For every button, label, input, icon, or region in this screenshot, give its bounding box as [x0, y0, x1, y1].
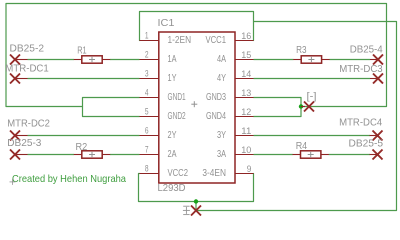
resistor R4: [293, 151, 329, 158]
svg-text:R3: R3: [296, 45, 307, 56]
wire MTR-DC2 to pin 6: [28, 135, 140, 137]
pin 15 stub: [235, 59, 254, 61]
svg-text:16: 16: [241, 31, 251, 41]
svg-text:R1: R1: [77, 46, 87, 57]
connector MTR-DC2: [10, 131, 28, 141]
svg-text:GND2: GND2: [168, 111, 186, 122]
svg-text:DB25-2: DB25-2: [10, 43, 45, 54]
svg-text:8: 8: [145, 163, 149, 173]
resistor R3: [293, 56, 329, 63]
pin 10 stub: [235, 154, 254, 156]
svg-text:GND1: GND1: [168, 92, 186, 103]
svg-text:MTR-DC4: MTR-DC4: [339, 118, 382, 129]
pin 9 stub: [235, 173, 254, 175]
svg-text:VCC2: VCC2: [168, 168, 189, 179]
svg-text:DB25-4: DB25-4: [350, 45, 383, 56]
svg-text:R4: R4: [296, 141, 308, 152]
svg-text:MTR-DC2: MTR-DC2: [7, 118, 50, 129]
wire VCC2 pin 8 / 3-4EN pin 9 bottom run: [139, 174, 254, 202]
wire MTR-DC1 to pin 3: [28, 78, 140, 80]
svg-text:VCC1: VCC1: [206, 35, 227, 46]
svg-text:4Y: 4Y: [217, 73, 226, 84]
svg-text:MTR-DC1: MTR-DC1: [5, 63, 49, 74]
wire pin 14 to MTR-DC3: [254, 78, 371, 80]
resistor R2: [74, 151, 110, 158]
svg-text:IC1: IC1: [158, 18, 175, 29]
connector MTR-DC1: [10, 74, 28, 84]
svg-text:3A: 3A: [217, 149, 226, 160]
svg-text:2: 2: [145, 49, 149, 59]
connector DB25-2: [10, 55, 28, 65]
svg-text:[-]: [-]: [307, 91, 317, 102]
pin 3 stub: [140, 78, 159, 80]
supply terminal [+]: [191, 206, 201, 216]
svg-text:1Y: 1Y: [168, 73, 177, 84]
pin 2 stub: [140, 59, 159, 61]
pin 13 stub: [235, 97, 254, 99]
pin 8 stub: [140, 173, 159, 175]
svg-text:GND4: GND4: [206, 111, 226, 122]
net VCC: pin 1 to pin 16 over top: [140, 12, 254, 41]
IC origin cross: [191, 101, 197, 107]
connector DB25-5: [370, 150, 383, 160]
svg-text:9: 9: [247, 164, 252, 174]
wire stub to [+] terminal: [195, 202, 197, 211]
svg-text:1A: 1A: [168, 54, 177, 65]
resistor R1: [74, 56, 110, 63]
supply terminal [-]: [301, 102, 314, 112]
svg-text:3: 3: [145, 68, 149, 78]
wire DB25-3 to R2: [28, 154, 75, 156]
pin 11 stub: [235, 135, 254, 137]
svg-text:12: 12: [241, 107, 251, 117]
connector DB25-3: [10, 150, 28, 160]
IC U1 L293D body: [159, 32, 235, 183]
svg-text:10: 10: [241, 145, 251, 155]
svg-text:14: 14: [241, 69, 251, 79]
pin 12 stub: [235, 116, 254, 118]
text origin cross: [10, 179, 16, 185]
svg-text:2Y: 2Y: [168, 130, 177, 141]
svg-text:Created by Hehen Nugraha: Created by Hehen Nugraha: [12, 174, 126, 185]
svg-text:R2: R2: [76, 142, 88, 153]
wire R4 to DB25-5: [329, 154, 370, 156]
wire DB25-2 to R1: [28, 59, 75, 61]
svg-text:DB25-3: DB25-3: [7, 138, 41, 149]
wire pin 10 to R4: [254, 154, 293, 156]
junction dot GND right node: [299, 104, 303, 108]
svg-text:GND3: GND3: [206, 92, 226, 103]
svg-text:6: 6: [145, 125, 149, 135]
wire GND1/GND2 tie (pins 4-5): [83, 98, 140, 117]
junction dot VCC bottom node: [194, 199, 198, 203]
wire pin 11 to MTR-DC4: [254, 135, 371, 137]
net GND: loop top/left/right: [6, 4, 387, 107]
svg-text:3-4EN: 3-4EN: [202, 168, 226, 179]
pin 5 stub: [140, 116, 159, 118]
svg-text:4: 4: [145, 87, 149, 97]
svg-text:1: 1: [145, 30, 149, 40]
pin 7 stub: [140, 154, 159, 156]
wire GND3/GND4 tie (pins 13-12): [254, 98, 302, 117]
pin 16 stub: [235, 40, 254, 42]
svg-text:5: 5: [145, 106, 149, 116]
wire R3 to DB25-4: [329, 59, 370, 61]
svg-text:11: 11: [241, 126, 251, 136]
label [+] rotated: [183, 206, 190, 214]
pin 6 stub: [140, 135, 159, 137]
wire R1 to pin 2: [110, 59, 140, 61]
svg-text:7: 7: [145, 144, 149, 154]
svg-text:4A: 4A: [217, 54, 226, 65]
connector MTR-DC3: [370, 74, 383, 84]
svg-text:DB25-5: DB25-5: [349, 138, 384, 149]
pin 1 stub: [140, 40, 159, 42]
svg-text:L293D: L293D: [158, 183, 186, 194]
connector DB25-4: [370, 55, 383, 65]
svg-text:1-2EN: 1-2EN: [168, 35, 192, 46]
wire R2 to pin 7: [110, 154, 140, 156]
svg-text:2A: 2A: [168, 149, 177, 160]
svg-text:15: 15: [241, 50, 251, 60]
wire VCC branch right side down to [+]: [196, 22, 397, 211]
pin 14 stub: [235, 78, 254, 80]
svg-text:3Y: 3Y: [217, 130, 226, 141]
connector MTR-DC4: [370, 131, 383, 141]
wire pin 15 to R3: [254, 59, 294, 61]
pin 4 stub: [140, 97, 159, 99]
svg-text:13: 13: [241, 88, 251, 98]
svg-text:MTR-DC3: MTR-DC3: [339, 64, 383, 75]
